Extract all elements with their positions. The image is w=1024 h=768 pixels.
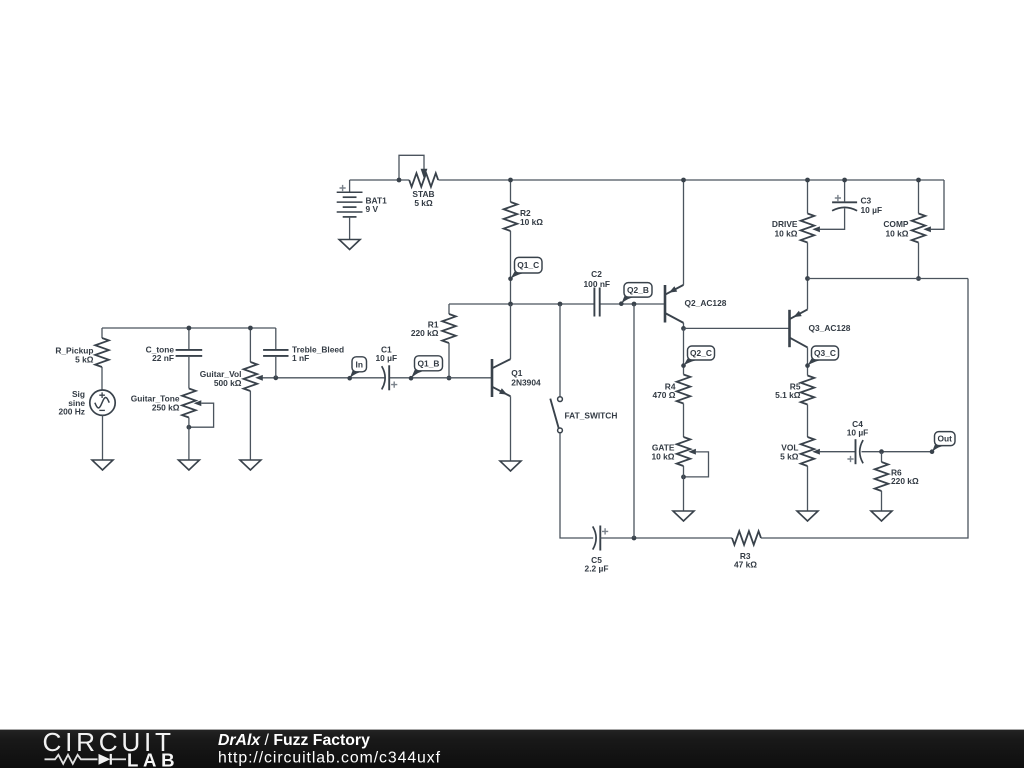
junction C5 drop wire on bus bbox=[632, 302, 637, 307]
COMP wiper arrow bbox=[923, 226, 931, 232]
capacitor C5 bbox=[593, 526, 601, 551]
wire Q3 emitter up bbox=[807, 279, 809, 310]
wire rail down to C_tone bbox=[188, 328, 190, 350]
svg-text:In: In bbox=[356, 359, 363, 369]
svg-text:220 kΩ: 220 kΩ bbox=[411, 328, 439, 338]
node Q1_B flag bbox=[409, 356, 443, 381]
ground GATE bbox=[673, 511, 694, 521]
source SIG bbox=[90, 390, 115, 415]
wire rail corner down to Treble_Bleed bbox=[275, 328, 277, 350]
wire Guitar_Tone bottom to ground bbox=[188, 418, 190, 461]
svg-text:C3: C3 bbox=[861, 196, 872, 206]
resistor R4 bbox=[677, 375, 691, 404]
junction Q2 emitter on rail bbox=[681, 178, 686, 183]
wire C5 to R3 bbox=[600, 537, 732, 539]
svg-text:5.1 kΩ: 5.1 kΩ bbox=[775, 390, 801, 400]
svg-text:10 kΩ: 10 kΩ bbox=[774, 229, 797, 239]
svg-text:DrAlx / Fuzz Factory: DrAlx / Fuzz Factory bbox=[218, 732, 370, 749]
wire Guitar_Tone wiper loop bbox=[189, 403, 214, 427]
transistor Q3 bbox=[790, 309, 808, 347]
node Out flag bbox=[930, 432, 955, 454]
junction STAB left terminal bbox=[397, 178, 402, 183]
wire R2 bottom to Q1 collector bus bbox=[510, 231, 512, 304]
wire R3 to right rail up bbox=[761, 279, 968, 539]
svg-text:Q1: Q1 bbox=[511, 368, 523, 378]
svg-text:2N3904: 2N3904 bbox=[511, 377, 541, 387]
wire Q3 collector down to R5 bbox=[807, 347, 809, 375]
wire top rail STAB to COMP wiper corner bbox=[438, 179, 944, 181]
wire Treble_Bleed bottom to base wire bbox=[275, 356, 277, 378]
junction DRIVE top on rail bbox=[805, 178, 810, 183]
GATE wiper arrow bbox=[688, 449, 696, 455]
svg-text:Q1_B: Q1_B bbox=[418, 358, 440, 368]
potentiometer Guitar_Vol bbox=[244, 362, 258, 391]
capacitor C_tone bbox=[176, 350, 203, 356]
svg-text:Q1_C: Q1_C bbox=[517, 260, 539, 270]
resistor R_Pickup bbox=[95, 338, 109, 367]
wire bus down to bottom feedback wire bbox=[633, 304, 635, 538]
svg-text:5 kΩ: 5 kΩ bbox=[75, 354, 94, 364]
transistor Q2 bbox=[665, 285, 684, 323]
svg-text:250 kΩ: 250 kΩ bbox=[152, 402, 180, 412]
junction R2 top on rail bbox=[508, 178, 513, 183]
footer bar bbox=[0, 730, 1024, 768]
junction C3 top on rail bbox=[842, 178, 847, 183]
node In flag bbox=[347, 357, 366, 381]
svg-text:COMP: COMP bbox=[883, 219, 909, 229]
wire R4 to GATE bbox=[683, 404, 685, 438]
svg-text:500 kΩ: 500 kΩ bbox=[214, 378, 242, 388]
svg-text:100 nF: 100 nF bbox=[584, 279, 611, 289]
node Q1_C flag bbox=[508, 257, 542, 281]
potentiometer VOL bbox=[801, 437, 815, 466]
svg-text:47 kΩ: 47 kΩ bbox=[734, 560, 757, 570]
wire DRIVE wiper to C3 bbox=[820, 208, 845, 229]
capacitor C3 bbox=[832, 202, 857, 211]
svg-text:10 µF: 10 µF bbox=[847, 427, 869, 437]
capacitor Treble_Bleed bbox=[263, 350, 288, 356]
wire VOL wiper to C4 bbox=[820, 451, 856, 453]
svg-text:10 kΩ: 10 kΩ bbox=[885, 229, 908, 239]
svg-text:10 kΩ: 10 kΩ bbox=[520, 217, 543, 227]
svg-text:10 kΩ: 10 kΩ bbox=[651, 451, 674, 461]
node Q3_C flag bbox=[805, 346, 838, 368]
Guitar_Vol wiper arrow bbox=[255, 375, 263, 381]
svg-text:200 Hz: 200 Hz bbox=[58, 406, 85, 416]
junction collector Q1 on bus bbox=[508, 302, 513, 307]
svg-text:Q2_AC128: Q2_AC128 bbox=[685, 298, 727, 308]
junction Treble_Bleed bottom on base wire bbox=[273, 375, 278, 380]
svg-text:http://circuitlab.com/c344uxf: http://circuitlab.com/c344uxf bbox=[218, 750, 441, 767]
capacitor C2 bbox=[594, 288, 599, 317]
node Q2_B flag bbox=[619, 283, 652, 306]
battery BAT1 bbox=[337, 180, 363, 240]
resistor R3 bbox=[732, 531, 761, 545]
Guitar_Tone wiper arrow bbox=[194, 400, 202, 406]
wire Guitar_Vol bottom to ground bbox=[249, 391, 251, 460]
ground battery bbox=[339, 240, 360, 250]
wire GATE bottom to ground bbox=[683, 466, 685, 511]
svg-text:Out: Out bbox=[938, 434, 953, 444]
wire COMP wiper loop to rail bbox=[931, 180, 944, 229]
junction Q2 collector node bbox=[681, 326, 686, 331]
svg-text:470 Ω: 470 Ω bbox=[652, 390, 675, 400]
ground source bbox=[92, 460, 113, 470]
wire COMP bottom bbox=[918, 243, 920, 279]
potentiometer DRIVE bbox=[801, 214, 815, 243]
resistor R6 bbox=[875, 462, 889, 491]
svg-text:10 µF: 10 µF bbox=[861, 205, 883, 215]
potentiometer GATE bbox=[677, 437, 691, 466]
wire GATE wiper loop bbox=[684, 452, 709, 477]
resistor R2 bbox=[504, 202, 518, 231]
resistor R5 bbox=[801, 376, 815, 405]
junction COMP top on rail bbox=[916, 178, 921, 183]
junction R1 bottom on base wire bbox=[447, 376, 452, 381]
wire R1 bottom lead bbox=[448, 343, 450, 378]
wire DRIVE bottom bbox=[807, 243, 809, 279]
junction COMP bottom node bbox=[916, 276, 921, 281]
VOL wiper arrow bbox=[812, 449, 820, 455]
svg-text:Q3_C: Q3_C bbox=[814, 348, 836, 358]
resistor R1 bbox=[442, 314, 456, 343]
wire R2 top lead bbox=[510, 180, 512, 202]
svg-text:1 nF: 1 nF bbox=[292, 353, 309, 363]
wire rail down to COMP bbox=[918, 180, 920, 214]
switch FAT_SWITCH bbox=[550, 397, 562, 433]
svg-text:22 nF: 22 nF bbox=[152, 353, 174, 363]
ground R6 bbox=[871, 511, 892, 521]
svg-text:Q2_B: Q2_B bbox=[627, 285, 649, 295]
battery plus mark bbox=[340, 185, 346, 191]
wire left rail bbox=[102, 327, 276, 329]
wire Q2 emitter up to rail bbox=[683, 180, 685, 285]
wire guitar volume wiper to C1 bbox=[258, 377, 386, 379]
svg-text:Q3_AC128: Q3_AC128 bbox=[809, 323, 851, 333]
junction Guitar_Tone wiper to bottom bbox=[187, 425, 192, 430]
wire VOL bottom to ground bbox=[807, 466, 809, 511]
junction C_tone top on left rail bbox=[187, 326, 192, 331]
wire source to ground bbox=[102, 415, 104, 460]
wire Q3 emitter node to right rail bbox=[808, 278, 969, 280]
junction Guitar_Vol top on left rail bbox=[248, 326, 253, 331]
wire R_Pickup top lead bbox=[101, 328, 103, 338]
potentiometer COMP bbox=[912, 214, 926, 243]
logo circuit doodle bbox=[45, 755, 98, 764]
wire bus Q1_C right segment to Q2 base bbox=[600, 303, 665, 305]
svg-text:5 kΩ: 5 kΩ bbox=[414, 198, 433, 208]
STAB wiper arrow bbox=[421, 169, 428, 179]
C4 plus mark bbox=[847, 456, 853, 462]
svg-text:220 kΩ: 220 kΩ bbox=[891, 476, 919, 486]
junction drop wire on bottom wire bbox=[632, 536, 637, 541]
wire C1 to Q1 base bbox=[389, 377, 492, 379]
svg-text:LAB: LAB bbox=[127, 750, 175, 768]
wire rail down to DRIVE bbox=[807, 180, 809, 214]
junction R6 top bbox=[879, 449, 884, 454]
wire top rail battery to STAB bbox=[350, 179, 410, 181]
transistor Q1 bbox=[492, 359, 511, 397]
wire R6 bottom to ground bbox=[881, 491, 883, 511]
svg-text:5 kΩ: 5 kΩ bbox=[780, 451, 799, 461]
node Q2_C flag bbox=[681, 346, 714, 368]
potentiometer STAB bbox=[409, 173, 438, 187]
svg-text:C2: C2 bbox=[591, 269, 602, 279]
C1 plus mark bbox=[391, 382, 397, 388]
capacitor C4 bbox=[856, 439, 864, 464]
logo diode bbox=[99, 754, 111, 765]
C5 plus mark bbox=[602, 528, 608, 534]
junction FAT_SWITCH top on bus bbox=[558, 302, 563, 307]
svg-text:FAT_SWITCH: FAT_SWITCH bbox=[565, 411, 618, 421]
wire bus down to FAT_SWITCH top bbox=[559, 304, 561, 397]
wire rail down to Guitar_Vol bbox=[249, 328, 251, 362]
potentiometer Guitar_Tone bbox=[182, 389, 196, 418]
svg-text:Q2_C: Q2_C bbox=[690, 348, 712, 358]
svg-text:9 V: 9 V bbox=[366, 204, 379, 214]
wire C3 top to rail bbox=[844, 180, 846, 202]
wire Q2 collector stub bbox=[683, 323, 685, 329]
junction GATE wiper to bottom terminal bbox=[681, 475, 686, 480]
ground Guitar_Vol bbox=[240, 460, 261, 470]
wire Q2 collector to Q3 base bbox=[684, 327, 790, 329]
wire FAT_SWITCH bottom to C5 bbox=[560, 433, 593, 538]
wire C_tone to Guitar_Tone bbox=[188, 356, 190, 389]
ground Q1 emitter bbox=[500, 461, 521, 471]
ground VOL bbox=[797, 511, 818, 521]
wire R1 top lead bbox=[448, 304, 450, 314]
wire Q1 collector up to bus bbox=[510, 304, 512, 359]
wire STAB wiper loop bbox=[399, 155, 424, 180]
svg-text:10 µF: 10 µF bbox=[376, 353, 398, 363]
C3 plus mark bbox=[835, 195, 841, 201]
wire bus Q1_C left segment bbox=[449, 303, 594, 305]
svg-text:2.2 µF: 2.2 µF bbox=[585, 563, 609, 573]
wire Q1 emitter down to ground bbox=[510, 396, 512, 461]
wire R_Pickup to source bbox=[101, 367, 103, 390]
wire R5 to VOL bbox=[807, 405, 809, 438]
DRIVE wiper arrow bbox=[812, 226, 820, 232]
wire C4 to Out flag bbox=[862, 451, 933, 453]
svg-text:DRIVE: DRIVE bbox=[772, 219, 798, 229]
ground Guitar_Tone bbox=[178, 460, 199, 470]
junction DRIVE bottom node bbox=[805, 276, 810, 281]
wire R6 top lead bbox=[881, 452, 883, 462]
wire Q2 collector down to R4 bbox=[683, 328, 685, 374]
capacitor C1 bbox=[382, 365, 390, 390]
